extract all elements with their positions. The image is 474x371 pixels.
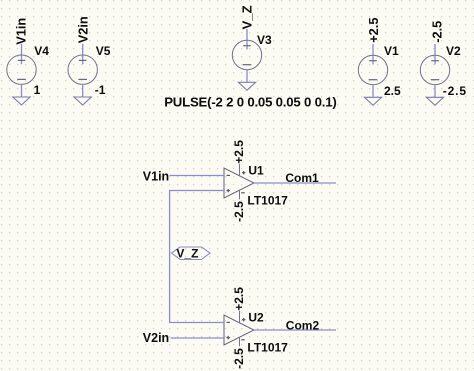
svg-text:PULSE(-2 2 0 0.05 0.05 0 0.1): PULSE(-2 2 0 0.05 0.05 0 0.1) xyxy=(164,94,336,109)
svg-text:V2: V2 xyxy=(446,44,461,58)
svg-text:2.5: 2.5 xyxy=(384,84,401,98)
svg-text:-1: -1 xyxy=(95,83,106,97)
wire V2in to U2 plus input xyxy=(171,337,225,339)
voltage source V1 xyxy=(358,44,387,105)
svg-text:Com2: Com2 xyxy=(286,318,320,332)
svg-text:1: 1 xyxy=(34,83,41,97)
svg-text:+2.5: +2.5 xyxy=(366,18,381,43)
wire vertical V_Z net xyxy=(169,191,171,323)
svg-text:V3: V3 xyxy=(257,33,272,47)
op-amp U1 (LT1017 comparator) xyxy=(224,164,254,199)
svg-text:-2.5: -2.5 xyxy=(232,348,246,369)
voltage source V2 xyxy=(420,44,449,105)
svg-text:+2.5: +2.5 xyxy=(232,140,246,164)
wire U1 output xyxy=(254,182,336,184)
op-amp U2 (LT1017 comparator) xyxy=(224,311,254,346)
svg-text:V1: V1 xyxy=(384,44,399,58)
svg-text:V_Z: V_Z xyxy=(176,247,198,261)
svg-text:-2.5: -2.5 xyxy=(443,84,467,98)
svg-text:U1: U1 xyxy=(248,163,264,177)
wire U2 output xyxy=(254,329,336,331)
svg-text:V4: V4 xyxy=(34,44,49,58)
wire U1 plus input left xyxy=(169,190,224,192)
voltage source V4 xyxy=(7,44,36,105)
svg-text:V2in: V2in xyxy=(76,16,91,43)
wire V1in to U1 minus input xyxy=(170,175,225,177)
svg-text:+2.5: +2.5 xyxy=(232,287,246,311)
svg-text:Com1: Com1 xyxy=(285,171,319,185)
wire to U2 minus input xyxy=(169,322,224,324)
svg-text:V1in: V1in xyxy=(143,169,169,183)
svg-text:U2: U2 xyxy=(248,310,264,324)
svg-text:-2.5: -2.5 xyxy=(232,201,246,222)
svg-text:V2in: V2in xyxy=(143,331,169,345)
svg-text:LT1017: LT1017 xyxy=(247,341,288,355)
voltage source V3 xyxy=(232,29,261,90)
svg-text:V_Z: V_Z xyxy=(240,5,255,29)
svg-text:V1in: V1in xyxy=(13,18,28,45)
svg-text:V5: V5 xyxy=(96,44,111,58)
svg-text:-2.5: -2.5 xyxy=(429,21,444,43)
svg-text:LT1017: LT1017 xyxy=(247,194,288,208)
voltage source V5 xyxy=(68,44,97,105)
node V_Z flag xyxy=(172,247,211,260)
